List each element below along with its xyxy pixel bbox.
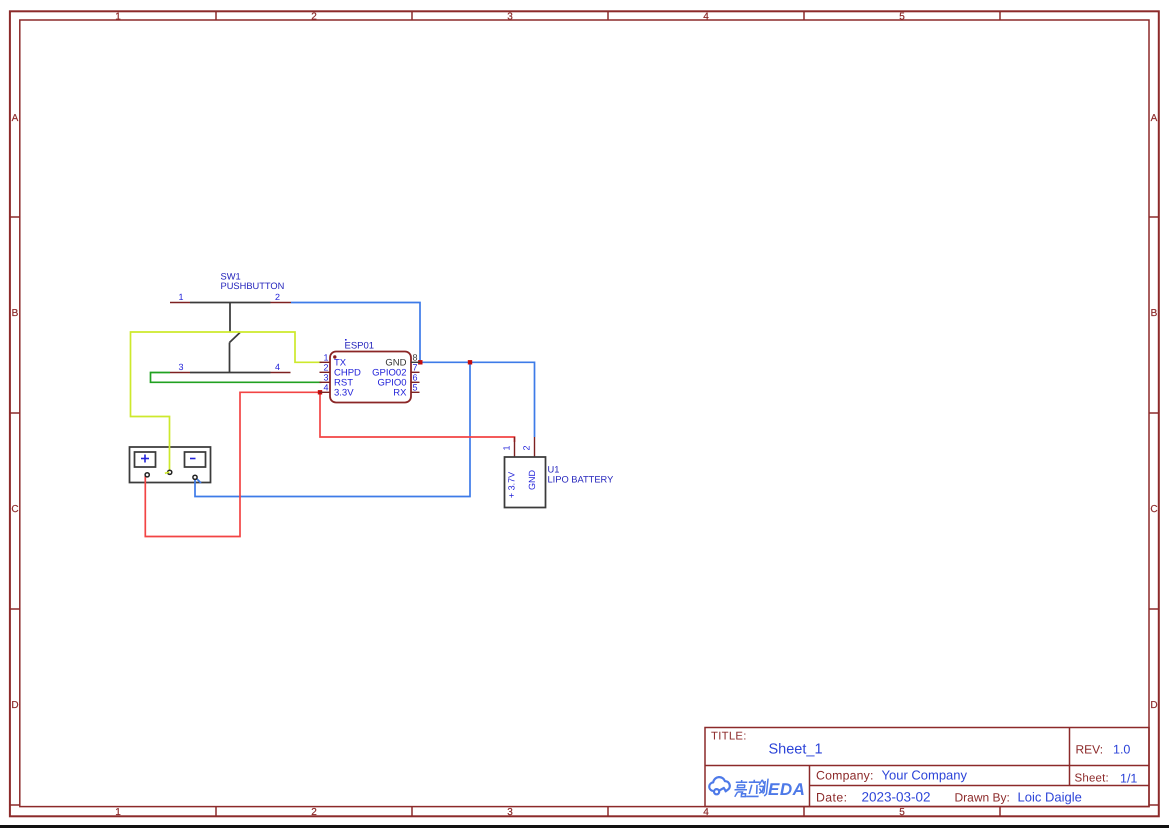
logo hanzi 嘉	[734, 780, 748, 797]
pushbutton SW1 pin 4 stub	[271, 372, 291, 374]
svg-text:5: 5	[899, 807, 905, 818]
chip ESP01 pin 6 stub	[411, 381, 420, 383]
svg-text:D: D	[1150, 700, 1157, 711]
battery holder left pin circle	[145, 473, 149, 477]
frame column numbers bottom	[115, 807, 905, 818]
chip ESP01 label dot	[345, 339, 347, 341]
junction blue net split	[468, 360, 472, 364]
svg-text:C: C	[1150, 504, 1157, 515]
frame row letters right	[1150, 113, 1157, 711]
svg-text:A: A	[1151, 113, 1158, 124]
frame column ticks top	[216, 11, 1000, 20]
svg-text:LIPO BATTERY: LIPO BATTERY	[548, 475, 614, 485]
LIPO battery U1 pin 1 stub	[514, 437, 516, 457]
svg-text:B: B	[1151, 308, 1158, 319]
wire blue junction to LIPO battery pin2	[420, 362, 535, 437]
svg-text:1: 1	[115, 12, 121, 23]
svg-text:A: A	[12, 113, 19, 124]
svg-text:PUSHBUTTON: PUSHBUTTON	[221, 281, 285, 291]
frame column ticks bottom	[216, 807, 1000, 816]
chip ESP01 pin 2 stub	[320, 371, 331, 373]
svg-text:1: 1	[502, 445, 512, 450]
chip ESP01 pin 3 stub	[320, 381, 331, 383]
wire green SW1 pin3 to ESP01 RST	[151, 373, 322, 383]
svg-text:C: C	[11, 504, 18, 515]
svg-text:B: B	[12, 308, 19, 319]
chip ESP01 left pin numbers	[323, 352, 328, 392]
frame row letters left	[11, 113, 18, 711]
svg-text:TITLE:: TITLE:	[711, 731, 747, 743]
svg-text:1: 1	[178, 292, 183, 302]
svg-text:GND: GND	[527, 470, 537, 491]
junction ESP01 pin8 GND	[418, 360, 422, 364]
battery holder minus sign	[190, 458, 196, 460]
chip ESP01 pin 1 stub	[320, 361, 331, 363]
frame column numbers top	[115, 12, 905, 23]
junction ESP01 pin4 3.3V	[318, 390, 322, 394]
svg-text:2: 2	[323, 362, 328, 372]
title block grid	[705, 728, 1149, 807]
svg-text:SW1: SW1	[221, 272, 241, 282]
svg-text:Loic Daigle: Loic Daigle	[1018, 790, 1082, 805]
svg-text:Sheet_1: Sheet_1	[769, 742, 823, 758]
svg-text:1/1: 1/1	[1120, 772, 1137, 786]
svg-text:5: 5	[899, 12, 905, 23]
svg-text:D: D	[11, 700, 18, 711]
svg-text:Date:: Date:	[816, 791, 847, 805]
svg-text:Sheet:: Sheet:	[1075, 773, 1109, 785]
battery holder body	[130, 447, 211, 483]
svg-text:3: 3	[507, 12, 513, 23]
frame row ticks left	[10, 217, 20, 805]
svg-text:4: 4	[703, 12, 709, 23]
pushbutton SW1 pin 2 stub	[271, 302, 292, 304]
pushbutton SW1 body	[190, 303, 271, 373]
svg-text:U1: U1	[548, 465, 560, 475]
svg-text:7: 7	[413, 362, 418, 372]
pushbutton SW1 pin 3 stub	[170, 372, 190, 374]
frame row ticks right	[1149, 217, 1159, 805]
LIPO battery U1 body	[505, 457, 546, 508]
wire yellow end tick at holder middle pin	[165, 472, 169, 473]
chip ESP01 pin 5 stub	[411, 391, 420, 393]
svg-text:8: 8	[413, 352, 418, 362]
svg-text:2: 2	[311, 807, 317, 818]
chip ESP01 pin1 indicator dot	[333, 355, 336, 358]
svg-text:3: 3	[178, 362, 183, 372]
chip ESP01 body	[330, 352, 411, 403]
battery holder plus sign	[141, 455, 149, 463]
battery holder middle pin circle	[168, 470, 172, 474]
svg-text:3.3V: 3.3V	[334, 388, 354, 399]
wire yellow SW1 area to ESP01 TX and battery holder mid pin	[131, 332, 322, 472]
logo JLCEDA cloud	[709, 777, 730, 794]
chip ESP01 pin 8 stub	[411, 361, 420, 363]
svg-text:4: 4	[703, 807, 709, 818]
wire red battery holder plus pin to ESP01 3.3V	[145, 392, 320, 536]
svg-text:REV:: REV:	[1076, 743, 1104, 757]
svg-text:2023-03-02: 2023-03-02	[862, 790, 931, 805]
logo hanzi 立	[746, 780, 760, 797]
svg-text:Drawn By:: Drawn By:	[955, 791, 1010, 805]
wire blue SW1 pin2 to ESP01 GND junction	[291, 303, 420, 363]
svg-text:6: 6	[413, 372, 418, 382]
svg-text:2: 2	[522, 445, 532, 450]
wire blue junction down-left to battery holder right pin	[195, 362, 470, 496]
battery holder plus terminal box	[135, 452, 156, 467]
svg-text:EDA: EDA	[768, 780, 805, 799]
svg-text:1.0: 1.0	[1113, 743, 1130, 757]
logo hanzi 创	[758, 779, 768, 797]
svg-text:3: 3	[323, 372, 328, 382]
battery holder right pin circle	[193, 475, 197, 479]
svg-text:Your Company: Your Company	[882, 768, 968, 783]
svg-text:3: 3	[507, 807, 513, 818]
chip ESP01 pin 4 stub	[320, 391, 331, 393]
window bottom black bar	[0, 825, 1169, 828]
svg-text:+ 3.7V: + 3.7V	[507, 472, 517, 498]
svg-text:2: 2	[311, 12, 317, 23]
chip ESP01 right pin numbers	[413, 352, 418, 392]
svg-text:ESP01: ESP01	[345, 341, 375, 352]
svg-text:4: 4	[323, 382, 328, 392]
LIPO battery U1 pin 2 stub	[534, 437, 536, 457]
svg-text:1: 1	[323, 352, 328, 362]
svg-text:RX: RX	[393, 388, 407, 399]
chip ESP01 pin 7 stub	[411, 371, 420, 373]
pushbutton SW1 pin 1 stub	[170, 302, 190, 304]
svg-text:2: 2	[275, 292, 280, 302]
svg-text:Company:: Company:	[816, 769, 874, 783]
wire red ESP01 3.3V junction to LIPO battery pin1	[320, 392, 515, 442]
battery holder minus terminal box	[185, 452, 206, 467]
wire blue diagonal stub at holder pin	[196, 478, 202, 484]
svg-text:4: 4	[275, 362, 280, 372]
svg-text:1: 1	[115, 807, 121, 818]
pushbutton SW1 label	[221, 272, 285, 292]
svg-text:5: 5	[413, 382, 418, 392]
